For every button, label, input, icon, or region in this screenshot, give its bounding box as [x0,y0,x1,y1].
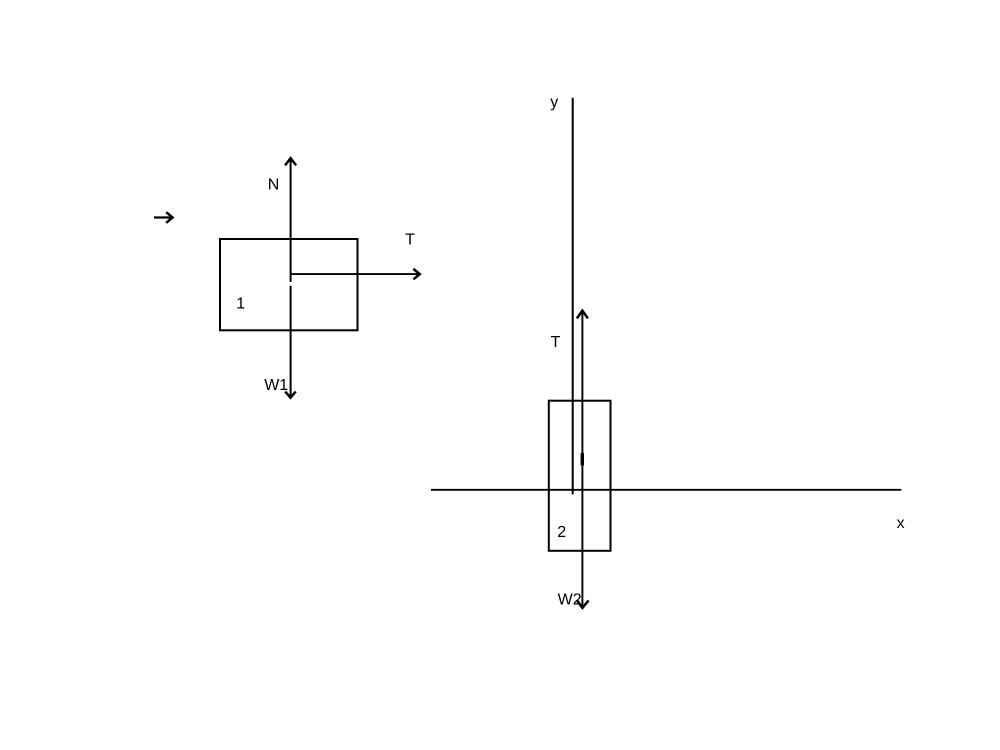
svg-text:T: T [551,334,561,351]
svg-text:W2: W2 [558,592,582,609]
weight W2 arrowhead (down) [577,600,589,608]
svg-text:1: 1 [236,295,245,312]
block 2 rectangle [549,401,611,551]
normal force N arrow (up) [285,158,296,282]
tension T arrow (up) on block 2 / weight W2 shaft [577,311,588,608]
svg-text:N: N [268,177,280,194]
block 1 rectangle [220,239,358,330]
svg-text:T: T [405,232,415,249]
svg-text:x: x [897,515,905,532]
svg-text:2: 2 [557,524,566,541]
thick overlap dash on T/W2 line inside block 2 [581,453,584,466]
tension T arrow (right) on block 1 [291,269,420,279]
svg-text:y: y [550,94,558,111]
applied-force arrow (small right arrow, left of block 1) [154,212,173,223]
x-axis line [431,489,901,491]
svg-text:W1: W1 [264,377,288,394]
y-axis line [572,98,574,495]
weight W1 arrow (down) [285,286,296,398]
